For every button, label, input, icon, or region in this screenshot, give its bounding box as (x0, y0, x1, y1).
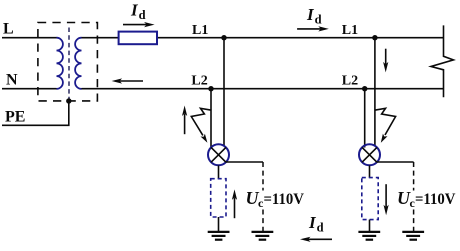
node L1 tap 1 (221, 35, 226, 40)
wire L2 (secondary bottom) (82, 88, 444, 90)
ground 2 (252, 232, 274, 240)
svg-text:PE: PE (5, 108, 25, 125)
fault breakdown arrow to lamp HL2 (375, 108, 396, 143)
current arrow down (beside right impedance) (384, 184, 389, 215)
wire L1 (secondary top) (82, 37, 444, 39)
bus break symbol (right edge) (431, 25, 453, 97)
fault impedance box (right, dashed) (362, 178, 378, 220)
wire impedance to ground 3 (369, 220, 371, 232)
svg-text:L2: L2 (191, 73, 207, 88)
wire from L1 tap1 down to lamp (223, 38, 225, 147)
svg-text:L1: L1 (192, 23, 208, 38)
wire from L2 tap2 down to lamp (364, 89, 366, 148)
svg-text:=110V: =110V (264, 191, 305, 208)
fault breakdown arrow to lamp HL1 (191, 108, 211, 143)
wire lamp HL1 bottom stub (218, 165, 220, 178)
svg-text:L1: L1 (342, 23, 358, 38)
node L1 tap 2 (372, 35, 377, 40)
fault impedance box (left, dashed) (211, 179, 226, 217)
svg-text:N: N (6, 72, 18, 89)
ground 4 (402, 232, 424, 240)
svg-text:L2: L2 (342, 73, 358, 88)
svg-text:d: d (315, 12, 322, 26)
current arrow Id (bottom, leftwards) (300, 237, 332, 242)
lamp HL1 (208, 144, 229, 165)
transformer T primary winding (57, 38, 63, 89)
wire impedance to ground 1 (218, 217, 220, 232)
transformer T secondary winding (75, 38, 81, 89)
current arrow on N wire (leftwards) (112, 78, 143, 83)
node L2 tap 2 (362, 86, 367, 91)
wire from L2 tap1 down to lamp (210, 89, 212, 148)
lamp HL2 (359, 144, 380, 165)
current arrow up (beside left impedance) (232, 189, 237, 218)
dashed earth wire (left column) (262, 162, 264, 231)
svg-text:d: d (317, 221, 324, 235)
dashed earth wire (right column) (413, 162, 415, 231)
current arrow Id (top middle) (297, 26, 329, 31)
wire from L1 tap2 down to lamp (374, 38, 376, 147)
wire PE (2, 101, 69, 125)
current arrow down (right of L1 tap2) (383, 49, 388, 73)
svg-text:L: L (3, 21, 14, 38)
fuse FU (119, 32, 157, 45)
wire lamp HL2 right branch (377, 161, 414, 163)
svg-text:=110V: =110V (415, 191, 456, 208)
svg-text:d: d (139, 8, 146, 22)
ground 3 (358, 232, 380, 240)
transformer T box (38, 23, 98, 101)
wire L (left segment) (2, 37, 57, 39)
wire lamp HL1 right branch (226, 161, 263, 163)
wire N (left segment) (2, 88, 57, 90)
node PE-screen junction (66, 98, 71, 103)
node L2 tap 1 (208, 86, 213, 91)
voltage arrow up (left of lamp HL1) (182, 106, 187, 135)
wire lamp HL2 bottom stub (369, 165, 371, 177)
ground 1 (208, 232, 230, 240)
transformer T core screen (68, 28, 70, 101)
current arrow Id (top left) (123, 22, 155, 27)
